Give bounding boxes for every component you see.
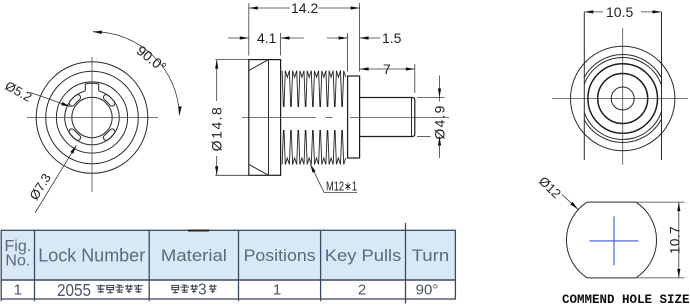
svg-text:10.7: 10.7 <box>668 226 683 254</box>
svg-text:4.1: 4.1 <box>257 30 277 46</box>
svg-text:No.: No. <box>5 253 30 270</box>
svg-text:90.0°: 90.0° <box>134 42 170 75</box>
svg-text:M12∗1: M12∗1 <box>326 179 357 194</box>
svg-text:90°: 90° <box>416 281 439 298</box>
svg-text:Lock Number: Lock Number <box>38 245 145 265</box>
svg-text:Ø4.9: Ø4.9 <box>432 104 448 139</box>
svg-text:1.5: 1.5 <box>382 30 402 46</box>
svg-text:1: 1 <box>14 281 22 298</box>
svg-text:2055: 2055 <box>57 280 91 300</box>
svg-text:Ø5.2: Ø5.2 <box>3 78 35 105</box>
svg-text:Positions: Positions <box>244 247 316 265</box>
svg-text:2: 2 <box>358 281 366 298</box>
svg-text:COMMEND HOLE SIZE: COMMEND HOLE SIZE <box>562 293 690 305</box>
svg-text:7: 7 <box>383 61 391 77</box>
svg-text:Key Pulls: Key Pulls <box>325 247 402 265</box>
svg-text:10.5: 10.5 <box>606 4 633 20</box>
svg-text:Ø14.8: Ø14.8 <box>208 106 224 152</box>
svg-text:Ø12: Ø12 <box>536 173 564 201</box>
svg-text:Ø7.3: Ø7.3 <box>26 171 54 203</box>
svg-text:Turn: Turn <box>412 247 450 265</box>
svg-text:Material: Material <box>161 247 227 265</box>
svg-text:14.2: 14.2 <box>291 0 318 16</box>
svg-text:1: 1 <box>273 281 281 298</box>
svg-text:3: 3 <box>198 282 207 299</box>
